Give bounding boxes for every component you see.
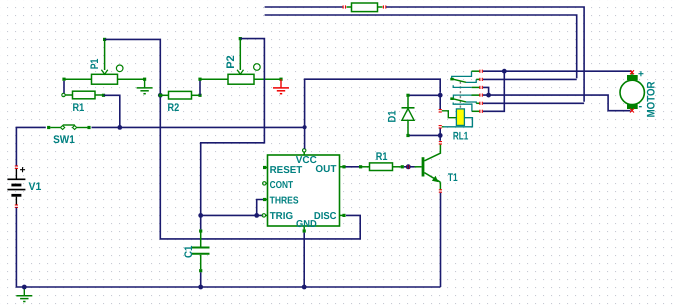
wire T1 emitter down [440, 193, 442, 287]
capacitor C1 [192, 229, 210, 272]
svg-text:OUT: OUT [315, 164, 336, 175]
wire C1 top [200, 215, 202, 229]
wire battery+ up [16, 127, 45, 165]
555 pin VCC [303, 149, 306, 155]
wire top 1 right [386, 7, 584, 102]
555 text VCC [296, 155, 317, 166]
label SW1 [53, 134, 75, 146]
svg-text:+: + [20, 165, 26, 176]
svg-text:T1: T1 [448, 172, 458, 184]
svg-text:V1: V1 [29, 181, 42, 193]
wire relay pole2 to motor- [483, 95, 631, 111]
node D1 bottom junction [438, 133, 443, 138]
node SW1/R1 junction [117, 125, 122, 130]
node base junction [406, 164, 411, 169]
555 text DISC [314, 211, 337, 222]
svg-text:+: + [638, 69, 644, 80]
wire OUT to R1 [346, 166, 360, 168]
555 pin GND [303, 226, 306, 233]
transistor T1 [415, 141, 443, 193]
555 text OUT [315, 164, 336, 175]
svg-text:C1: C1 [183, 246, 195, 259]
wire D1 anode (top) to coil net [410, 94, 441, 96]
wire P1 wiper / DISC net [105, 39, 361, 239]
wire relay pole1 to motor+ [483, 70, 632, 72]
node D1 top junction [438, 93, 443, 98]
wire R1 to SW1 line [104, 95, 120, 127]
wire GND down [303, 233, 305, 287]
wire P1-R1 [63, 81, 65, 93]
label P2 [225, 55, 237, 69]
555 pin RESET [263, 166, 268, 169]
wire VCC to supply [304, 127, 306, 148]
wire battery- down [16, 208, 440, 288]
label R1 (base) [376, 151, 388, 163]
wire supply to relay coil [305, 79, 441, 127]
wire coil pin2 drop [439, 128, 441, 135]
555 text GND [296, 219, 317, 230]
ground (P1 right) [137, 79, 153, 94]
wire SW1 to 555 VCC [92, 126, 305, 128]
svg-text:P1: P1 [89, 59, 101, 70]
label C1 [183, 246, 195, 259]
svg-text:GND: GND [296, 219, 317, 230]
node bottom-left ground junction [22, 285, 27, 290]
potentiometer P1 [62, 38, 146, 84]
555 text RESET [270, 165, 303, 176]
wire T1 collector drop [439, 135, 441, 140]
node R2 left junction [158, 93, 163, 98]
wire top 2 (to relay NC1) [265, 15, 577, 78]
ground (P2 right, red) [273, 79, 289, 94]
label RL1 [453, 131, 468, 143]
wire R1 to base [404, 166, 415, 168]
node TRIG-THRES junction [254, 213, 259, 218]
op-amp/timer U1 (555) body [268, 155, 340, 226]
svg-text:MOTOR: MOTOR [646, 81, 658, 117]
svg-text:RL1: RL1 [453, 131, 468, 143]
svg-text:R2: R2 [168, 102, 180, 114]
label T1 [448, 172, 458, 184]
resistor (top, unlabeled) [343, 3, 387, 12]
label R2 [168, 102, 180, 114]
resistor R1 [62, 91, 105, 99]
svg-text:R1: R1 [376, 151, 388, 163]
555 pin TRIG [262, 214, 267, 217]
svg-text:SW1: SW1 [53, 134, 75, 146]
svg-text:-: - [639, 101, 643, 113]
555 pin THRES [263, 198, 268, 201]
svg-text:R1: R1 [73, 102, 85, 114]
label R1 [73, 102, 85, 114]
wire top 1 (to relay NC2) [265, 6, 343, 8]
svg-text:THRES: THRES [270, 195, 299, 206]
555 pin OUT [340, 165, 346, 168]
svg-text:CONT: CONT [270, 180, 294, 191]
label P1 [89, 59, 101, 70]
wire R2-P2 [199, 79, 201, 95]
svg-text:DISC: DISC [314, 211, 337, 222]
diode D1 [402, 94, 415, 137]
wire D1 cathode (bottom) link [410, 134, 441, 136]
potentiometer P2 [198, 37, 282, 84]
555 text THRES [270, 195, 299, 206]
wire coil pin1 drop [439, 95, 441, 109]
wire relay NO2 riser [483, 73, 504, 111]
555 text TRIG [270, 211, 294, 222]
svg-text:TRIG: TRIG [270, 211, 294, 222]
svg-text:P2: P2 [225, 55, 237, 69]
label MOTOR [646, 81, 658, 117]
node NO1 junction [486, 93, 491, 98]
motor [620, 69, 644, 113]
node motor+ junction [502, 69, 507, 74]
wire relay NC2 to top1 [483, 102, 584, 104]
wire relay NC1 to top2 [483, 78, 577, 80]
node GND rail junction [302, 285, 307, 290]
555 pin DISC [340, 214, 346, 217]
node VCC junction [303, 125, 307, 129]
svg-text:RESET: RESET [270, 165, 303, 176]
node C1 ground junction [198, 285, 203, 290]
label V1 [29, 181, 42, 193]
relay RL1 [439, 70, 483, 129]
wire TRIG line [201, 214, 262, 216]
ground (bottom left) [16, 287, 32, 302]
555 pin CONT [263, 182, 268, 185]
resistor R1 (base) [359, 163, 404, 171]
wire THRES to TRIG [257, 200, 265, 214]
wire P2 wiper to TRIG [201, 39, 265, 214]
label D1 [387, 111, 399, 123]
svg-text:D1: D1 [387, 111, 399, 123]
node TRIG-C1 junction [198, 213, 203, 218]
switch SW1 [47, 125, 91, 130]
resistor R2 [159, 91, 202, 99]
555 text CONT [270, 180, 294, 191]
wire relay NO1 jumper [483, 87, 489, 93]
battery V1 [7, 165, 25, 208]
wire C1 bottom [200, 272, 202, 287]
